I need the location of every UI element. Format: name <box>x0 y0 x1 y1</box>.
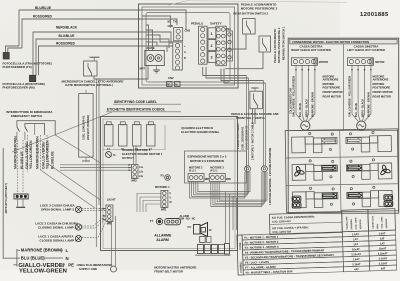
svg-text:F5: F5 <box>161 174 165 178</box>
svg-text:CASSA 230V: CASSA 230V <box>345 216 348 230</box>
svg-text:YELLOW-GREEN: YELLOW-GREEN <box>19 269 67 275</box>
fusibili label <box>237 235 243 275</box>
svg-text:IDENTIFYING CODE LABEL: IDENTIFYING CODE LABEL <box>114 100 157 104</box>
leader line <box>12 112 112 152</box>
svg-text:GATE: GATE <box>147 46 155 50</box>
svg-text:MARRONE - BROWN: MARRONE - BROWN <box>368 92 371 117</box>
grid cell r1c2 <box>378 136 392 152</box>
emergency wires down <box>18 135 47 194</box>
svg-text:FRONT BELT MOTOR: FRONT BELT MOTOR <box>154 269 183 273</box>
fuse row F5 <box>243 252 343 260</box>
svg-text:BLU - BLUE: BLU - BLUE <box>299 103 302 117</box>
grid cell r2c2 <box>378 163 392 179</box>
svg-text:REAR BUTTON SWITCH 1: REAR BUTTON SWITCH 1 <box>282 26 286 60</box>
svg-text:ANTERIORE: ANTERIORE <box>373 78 389 82</box>
junction cables down <box>225 192 227 244</box>
svg-text:3: 3 <box>210 56 212 60</box>
grid cell r2c1 <box>292 164 306 180</box>
svg-text:LIGHT: LIGHT <box>107 198 116 202</box>
counter configuration grid <box>285 129 398 213</box>
motor terminal strip left counter <box>347 58 373 66</box>
svg-text:1 MOTORE ANTERIORE - 3 MOTORE: 1 MOTORE ANTERIORE - 3 MOTORE POSTERIORE <box>269 147 272 205</box>
photocell RX <box>30 75 36 81</box>
svg-text:3.15xAT: 3.15xAT <box>351 252 361 256</box>
svg-text:FRONT SELF SWITCH: FRONT SELF SWITCH <box>236 116 266 120</box>
svg-text:BLU/BLUE: BLU/BLUE <box>35 6 51 10</box>
svg-text:1AT: 1AT <box>353 237 358 241</box>
svg-text:SUPPLY LINE: SUPPLY LINE <box>79 267 97 271</box>
svg-text:MOTORE POSTERIORE 1: MOTORE POSTERIORE 1 <box>277 27 281 63</box>
svg-text:MOTOR 2-3 EXPANSION: MOTOR 2-3 EXPANSION <box>190 159 224 163</box>
wires into motor1 connector <box>137 194 161 213</box>
transformer fuse holders <box>105 125 114 147</box>
svg-text:2: 2 <box>210 44 212 48</box>
svg-text:CLOSING SIGNAL LAMP 2: CLOSING SIGNAL LAMP 2 <box>38 225 76 229</box>
svg-text:4AT: 4AT <box>381 266 386 270</box>
svg-text:ELECTRIC BOARD PANEL: ELECTRIC BOARD PANEL <box>181 130 219 134</box>
svg-text:ANTERIORE: ANTERIORE <box>323 78 339 82</box>
svg-text:YELLOW-GREEN: YELLOW-GREEN <box>45 140 49 169</box>
svg-text:MARRONE/BROWN: MARRONE/BROWN <box>36 136 40 169</box>
svg-text:NERO - BLACK: NERO - BLACK <box>305 99 308 117</box>
svg-text:10xAT: 10xAT <box>352 247 360 251</box>
cable risers <box>246 76 248 166</box>
wires transformer to M1 <box>133 146 135 165</box>
svg-text:L: L <box>66 248 69 253</box>
faint top fold line <box>169 0 191 5</box>
wire internal bundle <box>142 16 171 28</box>
grid cell r3c2 <box>379 190 393 206</box>
svg-text:EMERGENCY SWITCH: EMERGENCY SWITCH <box>11 114 42 118</box>
svg-text:MR2: MR2 <box>132 180 138 183</box>
section divider above grid <box>285 130 399 132</box>
fuse row F4 <box>243 247 343 255</box>
svg-text:FT: FT <box>150 219 154 223</box>
svg-text:BLU/BLUE: BLU/BLUE <box>59 34 75 38</box>
fuse row F3 <box>242 242 342 250</box>
svg-text:VERSION: VERSION <box>360 219 362 229</box>
svg-text:FUSE: FUSE <box>238 242 242 249</box>
fuse row F1 <box>242 232 342 240</box>
svg-text:SAFETY: SAFETY <box>210 22 222 26</box>
svg-text:ROSSO/RED: ROSSO/RED <box>33 15 53 19</box>
svg-text:CN4: CN4 <box>226 27 232 31</box>
front seat switch <box>251 87 258 89</box>
svg-text:COD. 12001600-01: COD. 12001600-01 <box>82 115 86 140</box>
svg-text:III: III <box>168 20 171 24</box>
gate microswitch <box>90 56 100 58</box>
svg-text:1.6AT: 1.6AT <box>379 231 387 235</box>
wires into M1 <box>60 164 132 166</box>
lamp wire arrowheads <box>103 208 106 210</box>
svg-text:50Hz/60Hz: 50Hz/60Hz <box>351 219 353 230</box>
svg-text:W L2 L: W L2 L <box>210 170 218 172</box>
fuse row F6 <box>243 257 343 265</box>
svg-text:MOTORE 2: MOTORE 2 <box>189 165 203 169</box>
svg-text:4AT: 4AT <box>354 267 359 271</box>
svg-text:POSTERIORE: POSTERIORE <box>373 85 391 89</box>
wire gate to microswitch <box>94 66 148 80</box>
motor wires right counter <box>296 65 302 121</box>
transformer code box <box>79 94 93 158</box>
svg-text:1.6AT: 1.6AT <box>352 232 360 236</box>
connector plug left <box>14 194 28 199</box>
svg-text:COD. 12001-010: COD. 12001-010 <box>272 220 291 224</box>
svg-text:ANTIFURTO (ANTITHEFT): ANTIFURTO (ANTITHEFT) <box>5 183 8 214</box>
fuse row F8 <box>243 267 343 275</box>
svg-text:1AT: 1AT <box>353 242 358 246</box>
connector strip ticks right counter <box>295 69 297 71</box>
svg-text:3.15AT: 3.15AT <box>379 261 388 265</box>
svg-text:1AT: 1AT <box>380 236 385 240</box>
svg-text:MOTOR: MOTOR <box>375 61 384 64</box>
left long wire <box>3 148 17 258</box>
svg-text:TX: TX <box>173 20 177 24</box>
svg-text:3.15AT: 3.15AT <box>379 256 388 260</box>
svg-text:BLU - BLUE: BLU - BLUE <box>355 103 358 117</box>
svg-text:2 MOTORE 2 - MOTOR 2 CABLE: 2 MOTORE 2 - MOTOR 2 CABLE <box>252 122 255 160</box>
svg-text:N: N <box>66 256 69 261</box>
svg-text:60Hz: 60Hz <box>377 224 379 229</box>
svg-text:NERO/BLACK: NERO/BLACK <box>56 26 78 30</box>
svg-text:PEDALS: PEDALS <box>191 22 203 26</box>
svg-text:MARRONE - BROWN: MARRONE - BROWN <box>312 92 315 117</box>
svg-text:CLOSED SIGNAL LAMP 1: CLOSED SIGNAL LAMP 1 <box>40 239 77 243</box>
control board pcb <box>146 13 230 83</box>
svg-text:MOTORE POSTERIORE 2: MOTORE POSTERIORE 2 <box>241 6 278 10</box>
grid cell r3c1 <box>292 192 306 208</box>
diagonal wires to panel <box>41 170 96 208</box>
svg-text:RIGHT CHECK-OUT COUNTER: RIGHT CHECK-OUT COUNTER <box>291 48 331 52</box>
svg-text:REAR BUTTON SWITCH 2: REAR BUTTON SWITCH 2 <box>233 12 268 16</box>
svg-text:REAR MOTOR: REAR MOTOR <box>373 94 391 98</box>
electric board panel box <box>101 117 238 251</box>
svg-text:B: B <box>184 57 186 60</box>
svg-text:GATE MICROSWITCH (OPTIONAL): GATE MICROSWITCH (OPTIONAL) <box>65 83 113 87</box>
svg-text:MOTORE 3: MOTORE 3 <box>210 165 224 169</box>
fuse row F7 <box>243 262 343 270</box>
svg-text:COD. 12002: COD. 12002 <box>381 216 383 229</box>
svg-text:GIALLO/VERDE - YELLOW/GREEN: GIALLO/VERDE - YELLOW/GREEN <box>349 76 352 117</box>
svg-text:RE: RE <box>167 85 171 87</box>
svg-text:OPEN SIGNAL LAMP 3: OPEN SIGNAL LAMP 3 <box>41 207 74 211</box>
svg-text:%: % <box>113 153 116 157</box>
svg-text:LEFT CHECK-OUT COUNTER: LEFT CHECK-OUT COUNTER <box>347 48 385 52</box>
svg-text:COLLEGAMENTO CAVI: COLLEGAMENTO CAVI <box>290 88 293 114</box>
svg-text:MOTOR: MOTOR <box>319 61 328 64</box>
svg-text:BLU/BLUE: BLU/BLUE <box>20 151 24 169</box>
outer vertical wires <box>95 79 97 247</box>
grid cell r1c1 <box>292 137 306 153</box>
junction boxes <box>200 237 206 243</box>
svg-text:PHOTORECEIVER (RX): PHOTORECEIVER (RX) <box>3 86 35 90</box>
svg-text:FRONT MOTOR: FRONT MOTOR <box>323 90 343 94</box>
motor terminal strip right counter <box>291 58 317 66</box>
wire switch2 to board <box>225 34 246 49</box>
wire bundle board to panel <box>203 67 247 76</box>
svg-text:220/110V (50/60Hz): 220/110V (50/60Hz) <box>86 115 90 140</box>
svg-text:MR3: MR3 <box>161 209 167 212</box>
column divider <box>343 44 345 131</box>
title bar <box>290 39 397 44</box>
svg-text:BLU/BLUE: BLU/BLUE <box>51 151 55 169</box>
svg-text:3.15xAT: 3.15xAT <box>378 251 388 255</box>
wire to photocell TX <box>6 46 20 53</box>
svg-text:OUTPUT: OUTPUT <box>122 156 134 160</box>
svg-text:10xAT: 10xAT <box>379 246 387 250</box>
svg-text:PHOTOSENDER (TX): PHOTOSENDER (TX) <box>3 65 32 69</box>
svg-text:COD. 12001630-01: COD. 12001630-01 <box>241 126 245 150</box>
scheda board divider <box>103 125 165 150</box>
svg-text:1.6AT: 1.6AT <box>353 257 361 261</box>
svg-text:MR9: MR9 <box>226 179 231 181</box>
rear button switch 1 <box>259 36 271 52</box>
supply terminal L <box>16 249 18 267</box>
svg-text:CASSA 115V: CASSA 115V <box>371 215 374 229</box>
connector M1 out <box>132 165 139 179</box>
espansione motori box <box>185 151 247 183</box>
motor2 cable bundle <box>190 172 245 198</box>
svg-text:FRONT MOTOR: FRONT MOTOR <box>373 90 393 94</box>
svg-text:VERSION: VERSION <box>386 218 388 228</box>
svg-text:POSTERIORE: POSTERIORE <box>323 85 341 89</box>
motor 1 <box>301 121 310 130</box>
svg-text:CASSA SINISTRA: CASSA SINISTRA <box>354 44 380 48</box>
kit fuse box <box>269 212 342 235</box>
ground under gate <box>156 66 158 71</box>
svg-text:COM - NO - NC: COM - NO - NC <box>179 218 196 221</box>
photocell TX <box>3 53 9 60</box>
connessione motori box <box>288 38 399 213</box>
svg-text:MRT: MRT <box>140 67 146 71</box>
svg-text:REAR MOTOR: REAR MOTOR <box>323 94 341 98</box>
wire switch1 to board <box>225 52 263 69</box>
terminal blocks 1 2 3 <box>208 28 216 39</box>
svg-text:CN3: CN3 <box>185 29 191 33</box>
motor wires left counter <box>352 65 358 121</box>
svg-text:12001885: 12001885 <box>360 12 389 18</box>
svg-text:3.15AT: 3.15AT <box>352 262 361 266</box>
svg-text:ROSSO/RED: ROSSO/RED <box>56 42 76 46</box>
earth terminal symbol <box>106 152 112 158</box>
svg-text:1AT: 1AT <box>380 241 385 245</box>
svg-text:A: A <box>184 51 186 54</box>
svg-text:12: 12 <box>209 228 213 232</box>
svg-text:NERO - BLACK: NERO - BLACK <box>361 99 364 117</box>
svg-text:ETICHETTA IDENTIFICATIVA CODIC: ETICHETTA IDENTIFICATIVA CODICE <box>107 108 165 112</box>
svg-text:FU: FU <box>188 225 192 229</box>
svg-text:FUSIBILI: FUSIBILI <box>239 261 243 272</box>
motor3 cable bundle <box>211 172 262 207</box>
motor 2 <box>357 121 366 130</box>
svg-text:CN2: CN2 <box>168 76 174 80</box>
svg-text:1: 1 <box>210 32 212 36</box>
cable down to front belt motor <box>111 222 113 267</box>
svg-text:W L2 L: W L2 L <box>189 170 197 172</box>
svg-text:MOTORE 1: MOTORE 1 <box>155 185 170 189</box>
svg-text:MARRONE/BROWN: MARRONE/BROWN <box>14 136 18 169</box>
fuse value column headers <box>342 209 369 231</box>
svg-text:PE: PE <box>68 263 74 268</box>
svg-text:COD. 12001: COD. 12001 <box>355 217 357 230</box>
svg-text:GIALLO/VERDE - YELLOW/GREEN: GIALLO/VERDE - YELLOW/GREEN <box>293 76 296 117</box>
wire seat switch down <box>254 109 256 124</box>
svg-text:CONNESSIONE MOTORI - ELECTRIC: CONNESSIONE MOTORI - ELECTRIC MOTOR CONN… <box>292 40 369 44</box>
control board mid <box>142 7 235 85</box>
svg-text:CASSA DESTRA: CASSA DESTRA <box>299 44 323 48</box>
control board outer <box>139 4 239 88</box>
svg-text:ALARM: ALARM <box>156 238 169 242</box>
fuse row F2 <box>242 237 342 245</box>
